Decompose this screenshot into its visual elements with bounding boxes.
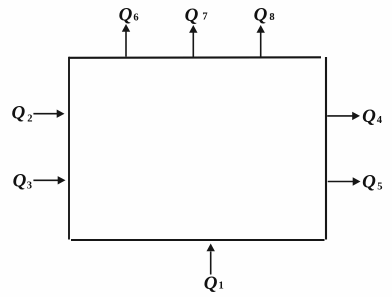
label Q3 [13, 170, 32, 191]
svg-text:6: 6 [133, 13, 138, 24]
label Q7 [185, 5, 208, 26]
svg-text:Q: Q [119, 5, 133, 26]
label Q6 [119, 5, 139, 26]
label Q2 [12, 103, 33, 125]
svg-text:1: 1 [219, 281, 224, 292]
arrow Q6 (top, outward) [122, 24, 130, 57]
control volume box left edge [68, 57, 70, 240]
svg-text:Q: Q [204, 273, 218, 294]
label Q5 [362, 171, 382, 192]
arrow Q8 (top, outward) [257, 25, 265, 57]
control volume box top edge [69, 56, 321, 59]
svg-text:Q: Q [254, 4, 268, 25]
label Q1 [204, 273, 224, 294]
svg-text:Q: Q [362, 106, 376, 127]
svg-text:Q: Q [13, 170, 27, 191]
arrow Q2 (left, inward) [33, 110, 64, 118]
arrow Q3 (left, inward) [33, 176, 65, 184]
svg-text:Q: Q [12, 103, 26, 124]
svg-text:3: 3 [27, 181, 32, 192]
label Q8 [254, 4, 275, 25]
svg-text:4: 4 [377, 115, 383, 126]
svg-text:2: 2 [27, 114, 32, 125]
arrow Q4 (right, outward) [327, 112, 360, 120]
svg-text:7: 7 [202, 12, 207, 23]
svg-text:5: 5 [377, 182, 382, 193]
control volume box bottom edge [71, 239, 325, 241]
arrow Q1 (bottom, inward) [207, 244, 215, 275]
svg-text:Q: Q [362, 171, 376, 192]
control volume box right edge [325, 57, 327, 240]
arrow Q5 (right, outward) [328, 177, 361, 185]
svg-text:Q: Q [185, 5, 199, 26]
label Q4 [362, 106, 383, 127]
arrow Q7 (top, outward) [189, 25, 197, 57]
svg-text:8: 8 [269, 12, 274, 23]
